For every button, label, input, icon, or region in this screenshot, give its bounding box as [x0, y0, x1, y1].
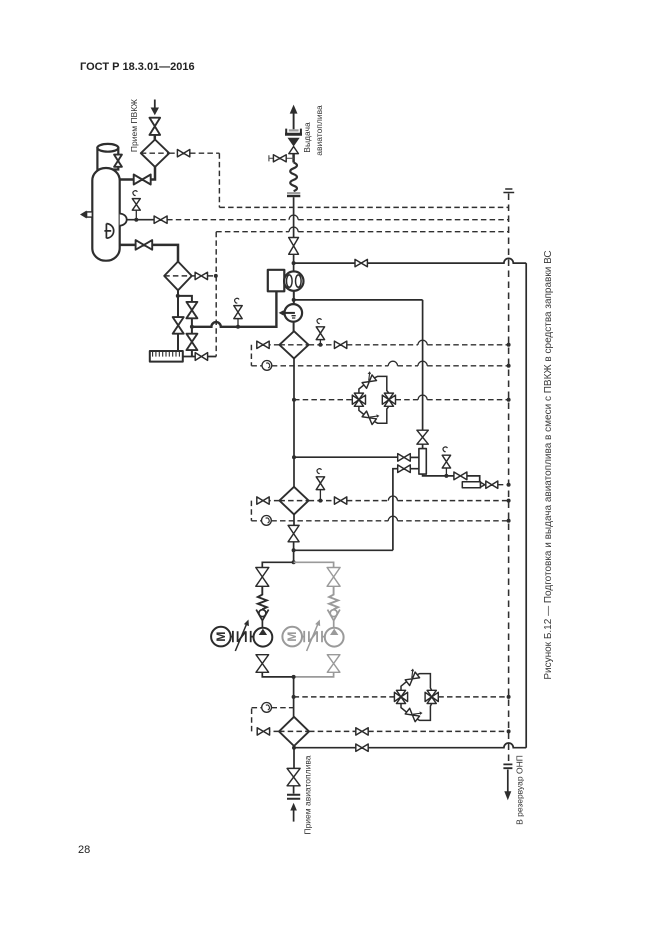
- wire main F1 to F2: [293, 358, 295, 487]
- page number 28: [78, 844, 90, 856]
- valve ring2 right 3way: [425, 690, 438, 703]
- relief valve pump1: [256, 610, 268, 628]
- wire recirculation line y263 to right: [294, 262, 355, 264]
- valve F2 outlet: [293, 514, 295, 525]
- valve dosing right upper: [186, 302, 197, 318]
- node drain y696: [507, 695, 511, 699]
- filter F3 intake: [279, 717, 309, 746]
- wire ring1 dashed left: [294, 399, 352, 401]
- wire dashed header y231: [216, 231, 508, 233]
- valve bleed left of outlet: [269, 155, 294, 161]
- valve F2 drain left: [251, 501, 279, 521]
- node pump header: [292, 560, 296, 564]
- gauge F1: [251, 365, 262, 367]
- node ring1 branch: [292, 398, 296, 402]
- valve F1 drain left: [251, 345, 279, 366]
- wire feed y457 to doser: [294, 456, 398, 458]
- svg-text:авиатоплива: авиатоплива: [314, 105, 324, 156]
- header ГОСТ Р 18.3.01—2016: [80, 61, 195, 73]
- nozzle coupling outlet: [286, 129, 301, 134]
- coupling drain bottom: [503, 764, 512, 768]
- wire main y254-271: [293, 254, 295, 271]
- svg-text:M: M: [214, 632, 228, 642]
- arrow variable drive 2 gray: [307, 625, 318, 652]
- valve sampling above F2 line: [319, 490, 321, 501]
- wire ring1 dashed right: [396, 399, 509, 401]
- wire dashed header y219 from tank nozzle: [167, 219, 509, 221]
- valve dosing left: [173, 317, 184, 334]
- filter F0 PVKZh: [141, 140, 169, 167]
- node drain y399: [507, 398, 511, 402]
- hose flexible outlet: [290, 163, 297, 192]
- valve ring1 left 3way: [352, 393, 365, 406]
- ruler metering scale: [150, 351, 183, 362]
- valve sampling above F1 line: [319, 340, 321, 345]
- arrow fuel intake up: [293, 810, 295, 822]
- wire pump2 to header gray: [294, 672, 334, 677]
- wire F2 to pumps: [293, 542, 295, 563]
- ring2 loop: [401, 674, 432, 721]
- wire valve to filter F0: [154, 135, 157, 140]
- wire F2 dashed right: [309, 500, 335, 502]
- ring1 loop: [359, 376, 389, 423]
- wire doser outlet y476: [423, 474, 454, 476]
- valve pressure-fueling (filled): [288, 138, 300, 147]
- wire ruler to dashed riser: [183, 356, 216, 358]
- filter F0b PVKZh lower: [164, 262, 192, 291]
- arrow to reservoir ONP: [507, 770, 509, 793]
- coupling motor2-pump2 gray: [302, 631, 325, 642]
- spring relief pump2 gray: [329, 586, 338, 609]
- node dosing outlet: [190, 325, 194, 329]
- gauge F2: [251, 520, 261, 522]
- wire ring2 dashed left: [294, 696, 395, 698]
- valve pump1 suction: [256, 568, 269, 587]
- valve sampling at tank: [135, 210, 137, 220]
- valve tank top feed: [134, 175, 151, 185]
- wire F3 dashed right: [309, 730, 509, 732]
- node F0b bottom: [176, 294, 180, 298]
- wire regulator to F1: [293, 322, 295, 332]
- svg-text:Выдача: Выдача: [302, 122, 312, 153]
- wire F0b bottom split: [178, 290, 192, 356]
- node F1 right line: [318, 343, 322, 347]
- wire pump1 to header: [262, 672, 293, 677]
- valve pump2 suction gray: [327, 568, 340, 587]
- dose pump box: [268, 270, 285, 292]
- node drain y500: [507, 499, 511, 503]
- node nozzle branch: [134, 218, 138, 222]
- valve F3 line right: [356, 728, 368, 735]
- wire dose line thick to meter box: [192, 292, 277, 327]
- valve pump2 discharge gray: [327, 655, 340, 673]
- node main to doser line: [292, 298, 296, 302]
- doser metering cylinder: [422, 444, 424, 448]
- wire intake y747 to right: [294, 747, 356, 749]
- valve doser feed B: [398, 465, 411, 473]
- svg-text:В резервуар ОНП: В резервуар ОНП: [515, 755, 525, 825]
- coupling below hose: [287, 192, 300, 194]
- tank neck: [97, 148, 118, 170]
- node drain y484: [507, 483, 511, 487]
- node drain y344: [507, 343, 511, 347]
- svg-text:Прием ПВКЖ: Прием ПВКЖ: [129, 99, 139, 152]
- wire main branch y300 to doser: [294, 299, 423, 301]
- relief valve pump2 gray: [328, 610, 340, 628]
- tank PVKZh body: [92, 168, 119, 261]
- wire F0 to tank valve: [120, 167, 155, 180]
- node main-recirc: [292, 261, 296, 265]
- node doser outlet sample: [444, 474, 448, 478]
- wire solid return vertical x526: [525, 263, 527, 748]
- valve sampling doser: [445, 468, 447, 476]
- valve ring2 top diag: [403, 668, 420, 685]
- motor M1: [211, 627, 231, 647]
- node pump outlet: [292, 675, 296, 679]
- valve ring2 left 3way: [394, 690, 407, 703]
- node pump feed split right: [292, 548, 296, 552]
- valve F3 drain left: [257, 730, 279, 732]
- level gauge in tank: [104, 224, 113, 239]
- flow meter circle: [284, 271, 303, 290]
- wire pump header top gray: [294, 562, 334, 567]
- wire dashed drain riser x508: [508, 194, 510, 763]
- coupling motor1-pump1: [231, 631, 254, 642]
- wire main pump outlet down: [293, 677, 295, 717]
- filter F1 water separator: [279, 331, 308, 358]
- node drain y520: [507, 519, 511, 523]
- svg-text:Прием авиатоплива: Прием авиатоплива: [302, 755, 312, 834]
- arrow variable drive 1: [235, 625, 246, 652]
- valve ring1 bottom diag: [362, 408, 379, 425]
- pump2 circle gray: [325, 628, 344, 647]
- wire to hose: [292, 154, 295, 163]
- node F3 bottom: [292, 746, 296, 750]
- valve PVKZh intake: [150, 118, 161, 135]
- valve ruler drain: [195, 353, 207, 361]
- coupling intake: [287, 795, 300, 799]
- valve right of F0b: [192, 275, 216, 277]
- wire pump header top black: [262, 562, 293, 567]
- cone sampler outlet: [481, 482, 485, 487]
- node F2 right line: [318, 499, 322, 503]
- node doser feed branch: [292, 455, 296, 459]
- wire tank bottom outlet: [120, 245, 178, 262]
- tank outlet nozzle bump: [120, 214, 127, 226]
- node ring2 branch: [292, 695, 296, 699]
- wire main outlet riser: [293, 113, 295, 130]
- arrow tank drain left: [87, 212, 93, 217]
- wire F1 dashed right: [309, 344, 335, 346]
- wire intake below valve: [293, 786, 295, 794]
- gauge F3: [252, 708, 262, 732]
- valve doser outlet: [454, 472, 467, 480]
- spring relief pump1: [258, 586, 267, 609]
- arrow PVKZh intake down: [154, 100, 156, 110]
- wire nozzle to valve: [127, 219, 155, 221]
- node drain y365: [507, 364, 511, 368]
- node drain y731: [507, 729, 511, 733]
- valve main intake: [287, 768, 300, 785]
- valve sampling dose line: [237, 319, 239, 327]
- node on dashed x216: [214, 274, 218, 278]
- wire dashed header y207 from PVKZh filter: [219, 153, 508, 207]
- valve ring2 bottom diag: [405, 705, 422, 722]
- vent symbol top of dashed riser: [503, 189, 514, 193]
- valve intake line right: [356, 744, 368, 751]
- pump1 circle: [254, 628, 273, 647]
- valve recirc y263: [355, 259, 367, 266]
- motor M2 gray: [282, 627, 302, 647]
- sampler pot: [462, 482, 480, 488]
- node dose line sample: [236, 325, 240, 329]
- valve dosing right lower: [186, 334, 197, 350]
- filter F2 water separator: [279, 487, 308, 515]
- svg-text:M: M: [285, 632, 299, 642]
- wire meter to regulator: [293, 291, 295, 305]
- valve sampler drain: [486, 481, 498, 488]
- valve ring1 right 3way: [382, 393, 395, 406]
- wire doser drop x422: [422, 300, 424, 430]
- valve nozzle line: [154, 216, 167, 223]
- flow regulator circle: [285, 304, 303, 322]
- valve V1 on main: [289, 238, 299, 255]
- valve right of F0: [169, 152, 219, 154]
- arrow outlet up: [290, 105, 298, 114]
- valve doser feed A: [398, 454, 411, 462]
- svg-text:Рисунок Б.12 — Подготовка и вы: Рисунок Б.12 — Подготовка и выдача авиат…: [543, 250, 554, 679]
- valve pump1 discharge: [256, 655, 269, 673]
- wire main y196-237: [293, 197, 295, 237]
- wire main intake riser: [293, 746, 295, 768]
- valve tank bottom: [136, 240, 153, 250]
- valve tank vent: [114, 155, 122, 167]
- valve ring1 top diag: [360, 371, 377, 388]
- valve doser top: [417, 430, 428, 444]
- wire ring2 dashed right: [438, 696, 508, 698]
